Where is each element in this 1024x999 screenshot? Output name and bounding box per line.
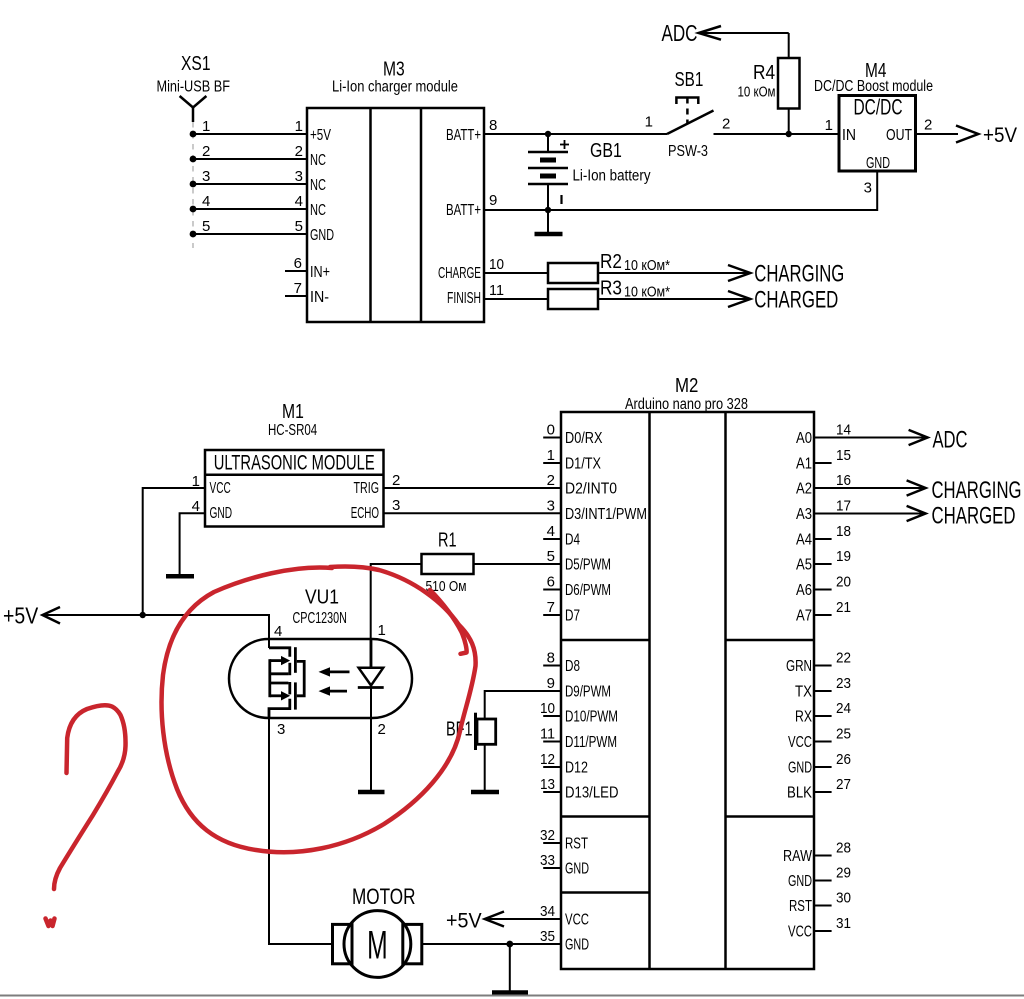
svg-text:D4: D4 (565, 532, 580, 549)
red annotation tail (430, 590, 467, 654)
VU1 light arrow bottom (319, 686, 348, 695)
M2 left pin names (565, 430, 647, 954)
svg-text:M2: M2 (675, 375, 698, 397)
ground below BF1 (471, 790, 499, 795)
module M2 label (625, 375, 748, 413)
motor M body (333, 911, 422, 978)
optocoupler VU1 label (293, 587, 347, 628)
VU1 mosfet source tap bottom (270, 682, 290, 694)
svg-text:2: 2 (392, 472, 400, 489)
svg-text:D13/LED: D13/LED (565, 785, 619, 802)
wire M1-VCC to +5V rail (143, 488, 205, 615)
wire A0 to ADC arrow (814, 437, 928, 439)
svg-text:NC: NC (310, 202, 326, 219)
connector XS1 plug symbol (180, 96, 207, 122)
svg-text:CHARGING: CHARGING (754, 261, 844, 288)
node XS1 pin2 (190, 156, 197, 163)
svg-text:D8: D8 (565, 658, 580, 675)
resistor R4 label (738, 62, 776, 101)
svg-text:26: 26 (836, 751, 851, 768)
svg-text:2: 2 (924, 117, 932, 134)
svg-text:RST: RST (565, 836, 588, 853)
svg-text:A1: A1 (796, 456, 812, 473)
wire TRIG to M2-D2 (384, 487, 562, 489)
VU1 light arrow top (319, 667, 350, 676)
svg-text:Li-Ion charger module: Li-Ion charger module (332, 79, 458, 96)
M3 right pin names (438, 127, 481, 307)
svg-text:24: 24 (836, 700, 851, 717)
svg-text:CHARGE: CHARGE (438, 265, 481, 282)
M2 right pin stubs (814, 463, 832, 931)
svg-text:R2: R2 (600, 251, 622, 273)
svg-text:A3: A3 (796, 506, 812, 523)
red annotation small mark (46, 919, 55, 927)
svg-text:R3: R3 (600, 278, 622, 300)
svg-text:RST: RST (789, 898, 812, 915)
M2 right pin names (783, 430, 813, 941)
svg-text:2: 2 (295, 143, 303, 160)
svg-text:31: 31 (836, 915, 851, 932)
M2 left pin numbers (540, 422, 555, 946)
svg-text:2: 2 (547, 472, 555, 489)
svg-text:DC/DC Boost module: DC/DC Boost module (814, 78, 933, 95)
svg-text:A5: A5 (796, 557, 812, 574)
svg-text:GRN: GRN (786, 658, 812, 675)
svg-text:FINISH: FINISH (447, 290, 481, 307)
svg-text:GND: GND (565, 937, 589, 954)
svg-text:4: 4 (547, 523, 555, 540)
ground below VU1 led (358, 790, 385, 795)
svg-text:NC: NC (310, 177, 326, 194)
module M4 label (814, 60, 933, 95)
red annotation question mark (54, 705, 126, 889)
+5V arrowhead left (43, 607, 61, 624)
buzzer BF1 (476, 713, 496, 750)
svg-text:GND: GND (788, 760, 812, 777)
svg-text:VCC: VCC (565, 912, 589, 929)
svg-text:28: 28 (836, 840, 851, 857)
SB1 pin numbers (645, 114, 731, 133)
svg-text:GB1: GB1 (590, 140, 622, 162)
wire ECHO to M2-D3 (384, 512, 562, 514)
M3 pin numbers left (294, 118, 303, 297)
svg-text:SB1: SB1 (675, 69, 704, 91)
wire rail corner down to VU1-4 (268, 614, 270, 648)
module M3 body (307, 108, 484, 322)
node battery plus junction (545, 131, 551, 137)
wire battery minus rail (484, 209, 877, 211)
VU1 led triangle (359, 668, 384, 686)
svg-text:14: 14 (836, 422, 851, 439)
resistor R3 (548, 289, 598, 309)
svg-text:R4: R4 (753, 62, 775, 84)
svg-text:7: 7 (294, 280, 302, 297)
svg-text:5: 5 (547, 548, 555, 565)
switch SB1 pushbutton symbol (676, 98, 698, 125)
svg-text:12: 12 (540, 751, 555, 768)
svg-text:VCC: VCC (788, 734, 812, 751)
svg-text:+5V: +5V (3, 603, 39, 629)
CHARGING arrowhead right (907, 480, 926, 495)
svg-text:1: 1 (378, 622, 386, 639)
svg-text:IN+: IN+ (310, 264, 330, 281)
svg-text:DC/DC: DC/DC (854, 95, 903, 120)
svg-text:35: 35 (540, 928, 555, 945)
module M1 label (268, 401, 317, 439)
svg-text:HC-SR04: HC-SR04 (268, 422, 317, 439)
svg-text:D3/INT1/PWM: D3/INT1/PWM (565, 506, 647, 523)
battery GB1 (528, 134, 569, 210)
ground below motor junction (492, 990, 528, 996)
svg-text:D1/TX: D1/TX (565, 456, 602, 473)
node XS1 pin1 (190, 131, 197, 138)
svg-text:Mini-USB BF: Mini-USB BF (157, 79, 231, 96)
svg-text:RAW: RAW (783, 848, 812, 865)
svg-text:8: 8 (547, 650, 555, 667)
svg-text:TX: TX (795, 684, 813, 701)
svg-text:D2/INT0: D2/INT0 (565, 481, 617, 498)
svg-text:2: 2 (722, 116, 730, 133)
wire VU1-3 down to motor (269, 718, 333, 944)
svg-text:D10/PWM: D10/PWM (565, 709, 618, 726)
svg-text:9: 9 (489, 192, 497, 209)
wire M3-7 stub (285, 295, 307, 297)
svg-text:3: 3 (392, 497, 400, 514)
svg-text:XS1: XS1 (181, 53, 211, 75)
wire R1 left down to VU1-1 (371, 564, 422, 668)
svg-text:A7: A7 (796, 608, 812, 625)
svg-text:VCC: VCC (788, 924, 812, 941)
XS1 pin numbers (202, 118, 210, 235)
VU1 mosfet body arrow top (270, 656, 290, 665)
svg-text:ULTRASONIC MODULE: ULTRASONIC MODULE (214, 452, 375, 475)
wire junction down to ground (509, 944, 511, 991)
svg-text:33: 33 (540, 852, 555, 869)
switch SB1 blade (667, 111, 714, 135)
resistor R2 label (600, 251, 670, 274)
svg-text:3: 3 (864, 180, 872, 197)
svg-text:19: 19 (836, 548, 851, 565)
svg-text:5: 5 (295, 218, 303, 235)
VU1 mosfet body arrow bottom (270, 691, 290, 700)
svg-text:3: 3 (295, 168, 303, 185)
svg-text:D9/PWM: D9/PWM (565, 684, 611, 701)
svg-text:D11/PWM: D11/PWM (565, 734, 617, 751)
VU1 mosfet left rail (268, 659, 271, 697)
svg-text:CHARGING: CHARGING (932, 477, 1022, 504)
svg-text:3: 3 (547, 498, 555, 515)
svg-text:M: M (367, 924, 388, 968)
wire M2-VCC34 to +5V arrow (485, 918, 561, 920)
svg-text:BATT+: BATT+ (446, 127, 481, 144)
ground below M1 (166, 574, 194, 579)
svg-text:A4: A4 (796, 532, 812, 549)
svg-text:1: 1 (202, 118, 210, 135)
svg-text:+5V: +5V (983, 124, 1017, 147)
svg-text:4: 4 (202, 193, 210, 210)
wire M2-D9 to BF1 (485, 691, 561, 719)
wire A3 to CHARGED arrow (814, 513, 926, 515)
wire XS1-4 to M3-4 (193, 208, 307, 210)
svg-text:11: 11 (489, 282, 504, 299)
svg-text:BLK: BLK (787, 785, 813, 802)
connector XS1 label (157, 53, 231, 96)
svg-text:11: 11 (540, 726, 555, 743)
svg-text:CHARGED: CHARGED (932, 503, 1016, 530)
CHARGED arrowhead (728, 291, 750, 307)
svg-text:CPC1230N: CPC1230N (293, 610, 347, 627)
battery GB1 label (573, 140, 651, 185)
M4 inner texts (842, 95, 912, 173)
window bottom grey line (0, 995, 1024, 997)
node XS1 pin3 (190, 181, 197, 188)
svg-text:1: 1 (295, 118, 303, 135)
wire XS1-5 to M3-5 (193, 233, 307, 235)
resistor R3 label (600, 278, 670, 301)
svg-text:1: 1 (645, 114, 653, 131)
svg-text:TRIG: TRIG (354, 480, 380, 497)
wire M3-6 stub (285, 270, 307, 272)
svg-text:18: 18 (836, 523, 851, 540)
svg-text:BATT+: BATT+ (446, 202, 481, 219)
svg-text:10 кОм*: 10 кОм* (624, 284, 670, 301)
svg-text:30: 30 (836, 890, 851, 907)
svg-text:13: 13 (540, 776, 555, 793)
node R4 junction (786, 131, 792, 137)
svg-text:1: 1 (547, 447, 555, 464)
svg-text:D12: D12 (565, 760, 588, 777)
M4 pin numbers (825, 117, 933, 197)
svg-text:23: 23 (836, 675, 851, 692)
svg-text:2: 2 (202, 143, 210, 160)
module M3 label (332, 59, 458, 96)
module M1 body (205, 450, 384, 527)
M2 right pin numbers (836, 422, 851, 933)
resistor R1 label (426, 530, 467, 596)
svg-text:0: 0 (547, 422, 555, 439)
svg-text:29: 29 (836, 865, 851, 882)
node battery minus junction (545, 207, 551, 213)
node XS1 pin4 (190, 206, 197, 213)
svg-text:M3: M3 (383, 59, 405, 81)
svg-text:A6: A6 (796, 582, 812, 599)
wire BF1 down to ground (484, 744, 486, 790)
svg-text:Li-Ion battery: Li-Ion battery (573, 168, 651, 185)
svg-text:9: 9 (547, 675, 555, 692)
svg-text:17: 17 (836, 498, 851, 515)
CHARGING arrowhead (728, 265, 750, 281)
svg-text:8: 8 (489, 117, 497, 134)
wire SB1-2 to M4-IN (714, 133, 840, 135)
red annotation circle around VU1 (162, 566, 476, 852)
svg-text:ADC: ADC (662, 20, 698, 46)
svg-text:MOTOR: MOTOR (352, 884, 416, 909)
svg-text:CHARGED: CHARGED (754, 287, 838, 314)
VU1 mosfet pin4 lead (269, 648, 290, 657)
svg-text:21: 21 (836, 599, 851, 616)
svg-text:D7: D7 (565, 608, 580, 625)
VU1 led anode lead (370, 639, 373, 668)
svg-text:1: 1 (825, 117, 833, 134)
svg-text:10 кОм: 10 кОм (738, 84, 776, 101)
+5V arrowhead motor (485, 912, 504, 927)
wire M4-GND down (876, 171, 878, 211)
svg-text:10 кОм*: 10 кОм* (624, 257, 670, 274)
svg-text:ADC: ADC (933, 427, 968, 454)
wire M4-OUT to +5V (916, 133, 959, 135)
VU1 pin numbers (274, 622, 386, 738)
svg-text:10: 10 (489, 256, 504, 273)
svg-text:2: 2 (378, 721, 386, 738)
svg-text:5: 5 (202, 218, 210, 235)
VU1 led cathode bar (358, 686, 384, 689)
svg-text:7: 7 (547, 599, 555, 616)
svg-text:3: 3 (277, 721, 285, 738)
+5V arrowhead right (956, 126, 978, 143)
VU1 gate bus (297, 661, 304, 695)
svg-text:10: 10 (540, 700, 555, 717)
wire M1-GND down (180, 513, 205, 574)
svg-text:25: 25 (836, 726, 851, 743)
svg-text:M1: M1 (282, 401, 304, 423)
M1 pin numbers (192, 472, 401, 515)
resistor R2 (548, 263, 598, 283)
M3 left pin names (310, 127, 334, 306)
svg-text:27: 27 (836, 776, 851, 793)
svg-text:Arduino nano pro 328: Arduino nano pro 328 (625, 396, 748, 413)
wire XS1-1 to M3-1 (193, 133, 307, 135)
svg-text:IN: IN (842, 127, 856, 144)
connector XS1 dashed body line (192, 122, 194, 248)
svg-text:RX: RX (795, 709, 813, 726)
svg-text:OUT: OUT (886, 127, 912, 144)
wire VU1-2 down to ground (370, 688, 372, 791)
svg-text:16: 16 (836, 472, 851, 489)
svg-text:GND: GND (788, 873, 812, 890)
module M4 body (839, 96, 916, 172)
svg-text:D6/PWM: D6/PWM (565, 582, 611, 599)
wire XS1-2 to M3-2 (193, 158, 307, 160)
svg-text:4: 4 (274, 623, 282, 640)
node M1 VCC junction (140, 612, 146, 618)
svg-text:22: 22 (836, 650, 851, 667)
svg-text:6: 6 (547, 574, 555, 591)
ground below battery (535, 210, 563, 234)
svg-text:NC: NC (310, 152, 326, 169)
svg-text:D5/PWM: D5/PWM (565, 557, 611, 574)
optocoupler VU1 body (229, 639, 412, 718)
M1 pin names (210, 480, 380, 522)
svg-text:3: 3 (202, 168, 210, 185)
svg-text:R1: R1 (438, 530, 457, 552)
svg-text:ECHO: ECHO (351, 505, 379, 522)
svg-text:GND: GND (866, 155, 890, 172)
svg-text:20: 20 (836, 574, 851, 591)
svg-text:A2: A2 (796, 481, 812, 498)
node motor ground junction (506, 941, 513, 948)
wire R2 to CHARGING arrow (598, 272, 750, 274)
svg-text:+5V: +5V (446, 910, 482, 933)
M2 left pin stubs (543, 438, 561, 869)
svg-text:4: 4 (295, 193, 303, 210)
VU1 mosfet pin3 lead (269, 699, 290, 718)
M3 pin numbers right (489, 117, 504, 299)
wire R1 right to M2-D5 (474, 563, 562, 565)
svg-text:6: 6 (294, 255, 302, 272)
svg-text:GND: GND (210, 505, 233, 522)
svg-text:VU1: VU1 (305, 587, 339, 609)
wire M3-8 to SB1 (484, 133, 667, 135)
wire M3-10 to R2 (484, 272, 548, 274)
svg-text:34: 34 (540, 903, 555, 920)
node XS1 pin5 (190, 231, 197, 238)
svg-text:32: 32 (540, 827, 555, 844)
wire A2 to CHARGING arrow (814, 487, 926, 489)
switch SB1 label (668, 69, 708, 160)
wire R4 to ADC arrow (699, 32, 789, 34)
ADC arrowhead (699, 26, 721, 40)
svg-text:+5V: +5V (310, 127, 331, 144)
resistor R1 (422, 554, 474, 574)
wire motor to M2-GND35 (422, 943, 561, 945)
svg-text:IN-: IN- (310, 289, 329, 306)
svg-text:VCC: VCC (210, 480, 231, 497)
VU1 mosfet source tap top (270, 663, 290, 675)
svg-text:GND: GND (310, 227, 334, 244)
module M2 body (561, 412, 814, 969)
wire R3 to CHARGED arrow (598, 298, 750, 300)
svg-text:A0: A0 (796, 430, 812, 447)
svg-text:D0/RX: D0/RX (565, 430, 603, 447)
CHARGED arrowhead right (907, 506, 926, 521)
wire M3-11 to R3 (484, 298, 548, 300)
ADC arrowhead right (909, 430, 928, 445)
svg-text:15: 15 (836, 447, 851, 464)
wire XS1-3 to M3-3 (193, 183, 307, 185)
VU1 mosfet gate bars (294, 647, 297, 709)
svg-text:GND: GND (565, 861, 589, 878)
+5V rail left wire (43, 614, 270, 616)
resistor R4 (778, 33, 800, 134)
svg-text:PSW-3: PSW-3 (668, 143, 708, 160)
